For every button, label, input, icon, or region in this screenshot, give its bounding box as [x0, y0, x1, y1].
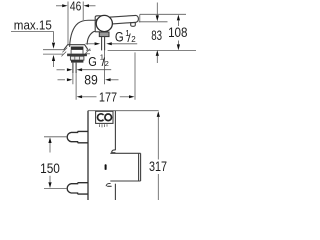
spout outlet nub: [131, 23, 136, 27]
dimension 317 top arrow: [157, 111, 160, 117]
spout block top edge: [110, 152, 140, 154]
handle 2 (bottom): [67, 183, 88, 194]
dimension 83 top arrow (down): [156, 3, 158, 16]
dimension 317 lower shaft: [157, 174, 159, 200]
dimension 89 left arrow: [58, 79, 66, 81]
locknut: [70, 56, 84, 60]
svg-text:2: 2: [131, 35, 136, 44]
max.15 leader line: [11, 32, 54, 42]
spout block bottom edge: [110, 180, 140, 182]
max.15 up arrow below deck: [53, 60, 55, 67]
dimension 108 bottom arrow (down): [177, 41, 179, 46]
spout column right outline: [87, 31, 95, 44]
dimension 150 top arrow: [48, 137, 51, 143]
flange skirt sides: [70, 50, 72, 54]
base flange dark band: [71, 47, 84, 50]
extension line from lever top (108 reference): [140, 13, 186, 15]
temperature knob (C shape): [98, 114, 105, 121]
max.15 down arrow to deck top: [52, 43, 55, 49]
control box on body top: [96, 111, 113, 123]
body right edge upper segment: [114, 111, 116, 151]
deck right break diagonal: [86, 49, 91, 54]
bottom hook curl: [106, 184, 111, 187]
top hook curl: [112, 150, 116, 153]
svg-text:G: G: [115, 30, 124, 45]
G1/2 upper: right arrow with leader underline: [106, 42, 112, 45]
valve body block: [95, 16, 104, 32]
handle 2 axis extension: [44, 187, 67, 189]
screw ticks below box: [99, 124, 101, 127]
tailpiece left line: [101, 37, 103, 51]
dimension 177 right arrow (inside, pointing out): [120, 96, 129, 98]
dimension 46 left extension line: [67, 2, 69, 45]
cap under knob: [99, 32, 109, 37]
G1/2 upper: left arrow: [86, 43, 95, 45]
svg-text:46: 46: [70, 0, 81, 14]
G1/2 lower: left arrow: [57, 69, 65, 71]
svg-text:max.15: max.15: [14, 18, 52, 33]
tailpiece right line + extension to 89 row: [104, 37, 106, 51]
dimension 46 right arrow: [89, 5, 96, 7]
dimension 108 top arrow (up): [177, 15, 180, 21]
dimension 83 bottom arrow (up): [156, 50, 159, 56]
slot mark on body: [105, 164, 107, 170]
G1/2 lower: right arrow with leader underline: [77, 68, 83, 71]
base flange trapezoid: [64, 45, 88, 50]
handle 1 (top): [67, 131, 88, 142]
deck baseline right (reference for 83/108): [108, 49, 196, 51]
svg-text:G: G: [88, 54, 97, 69]
svg-text:150: 150: [40, 161, 60, 176]
dimension 177 right extension line: [134, 52, 136, 99]
body top edge / 317 top extension line: [88, 110, 159, 112]
handle 1 axis extension: [44, 136, 67, 138]
body left edge: [87, 111, 89, 200]
lever (spout arm): [109, 15, 139, 24]
dimension 46 right extension line: [82, 2, 84, 21]
threaded shank right line + 177 tick: [75, 63, 77, 73]
spout column left outline: [70, 20, 96, 47]
extension line from lever bottom (83 reference): [139, 21, 168, 23]
deck left break diagonal: [62, 48, 67, 53]
threaded shank left line + 89 tick: [72, 63, 74, 73]
dimension 177 left arrow (inside, pointing out): [77, 95, 83, 98]
svg-text:317: 317: [149, 159, 167, 174]
dimension 150 bottom arrow: [49, 176, 51, 182]
washer dark bar below deck: [67, 54, 87, 57]
dimension 89 right arrow: [105, 78, 111, 81]
svg-text:177: 177: [99, 90, 117, 105]
deck left segment bottom line: [43, 53, 64, 55]
svg-text:83: 83: [151, 28, 162, 43]
body right edge lower segment: [114, 184, 116, 200]
svg-text:2: 2: [105, 59, 109, 68]
body bottom step: [95, 31, 100, 33]
lever end extension tick: [139, 14, 141, 22]
deck left segment top line: [43, 49, 65, 51]
dimension 46 left arrow: [56, 5, 63, 7]
volume knob (O shape): [105, 114, 112, 121]
deck right segment stubs: [86, 49, 91, 51]
diverter knob circle: [96, 15, 112, 31]
svg-text:108: 108: [168, 25, 187, 40]
locknut dark bottom band: [71, 60, 83, 63]
valve body chamfer line: [96, 16, 101, 21]
svg-text:89: 89: [84, 73, 98, 88]
spout block right double edge: [138, 153, 140, 181]
